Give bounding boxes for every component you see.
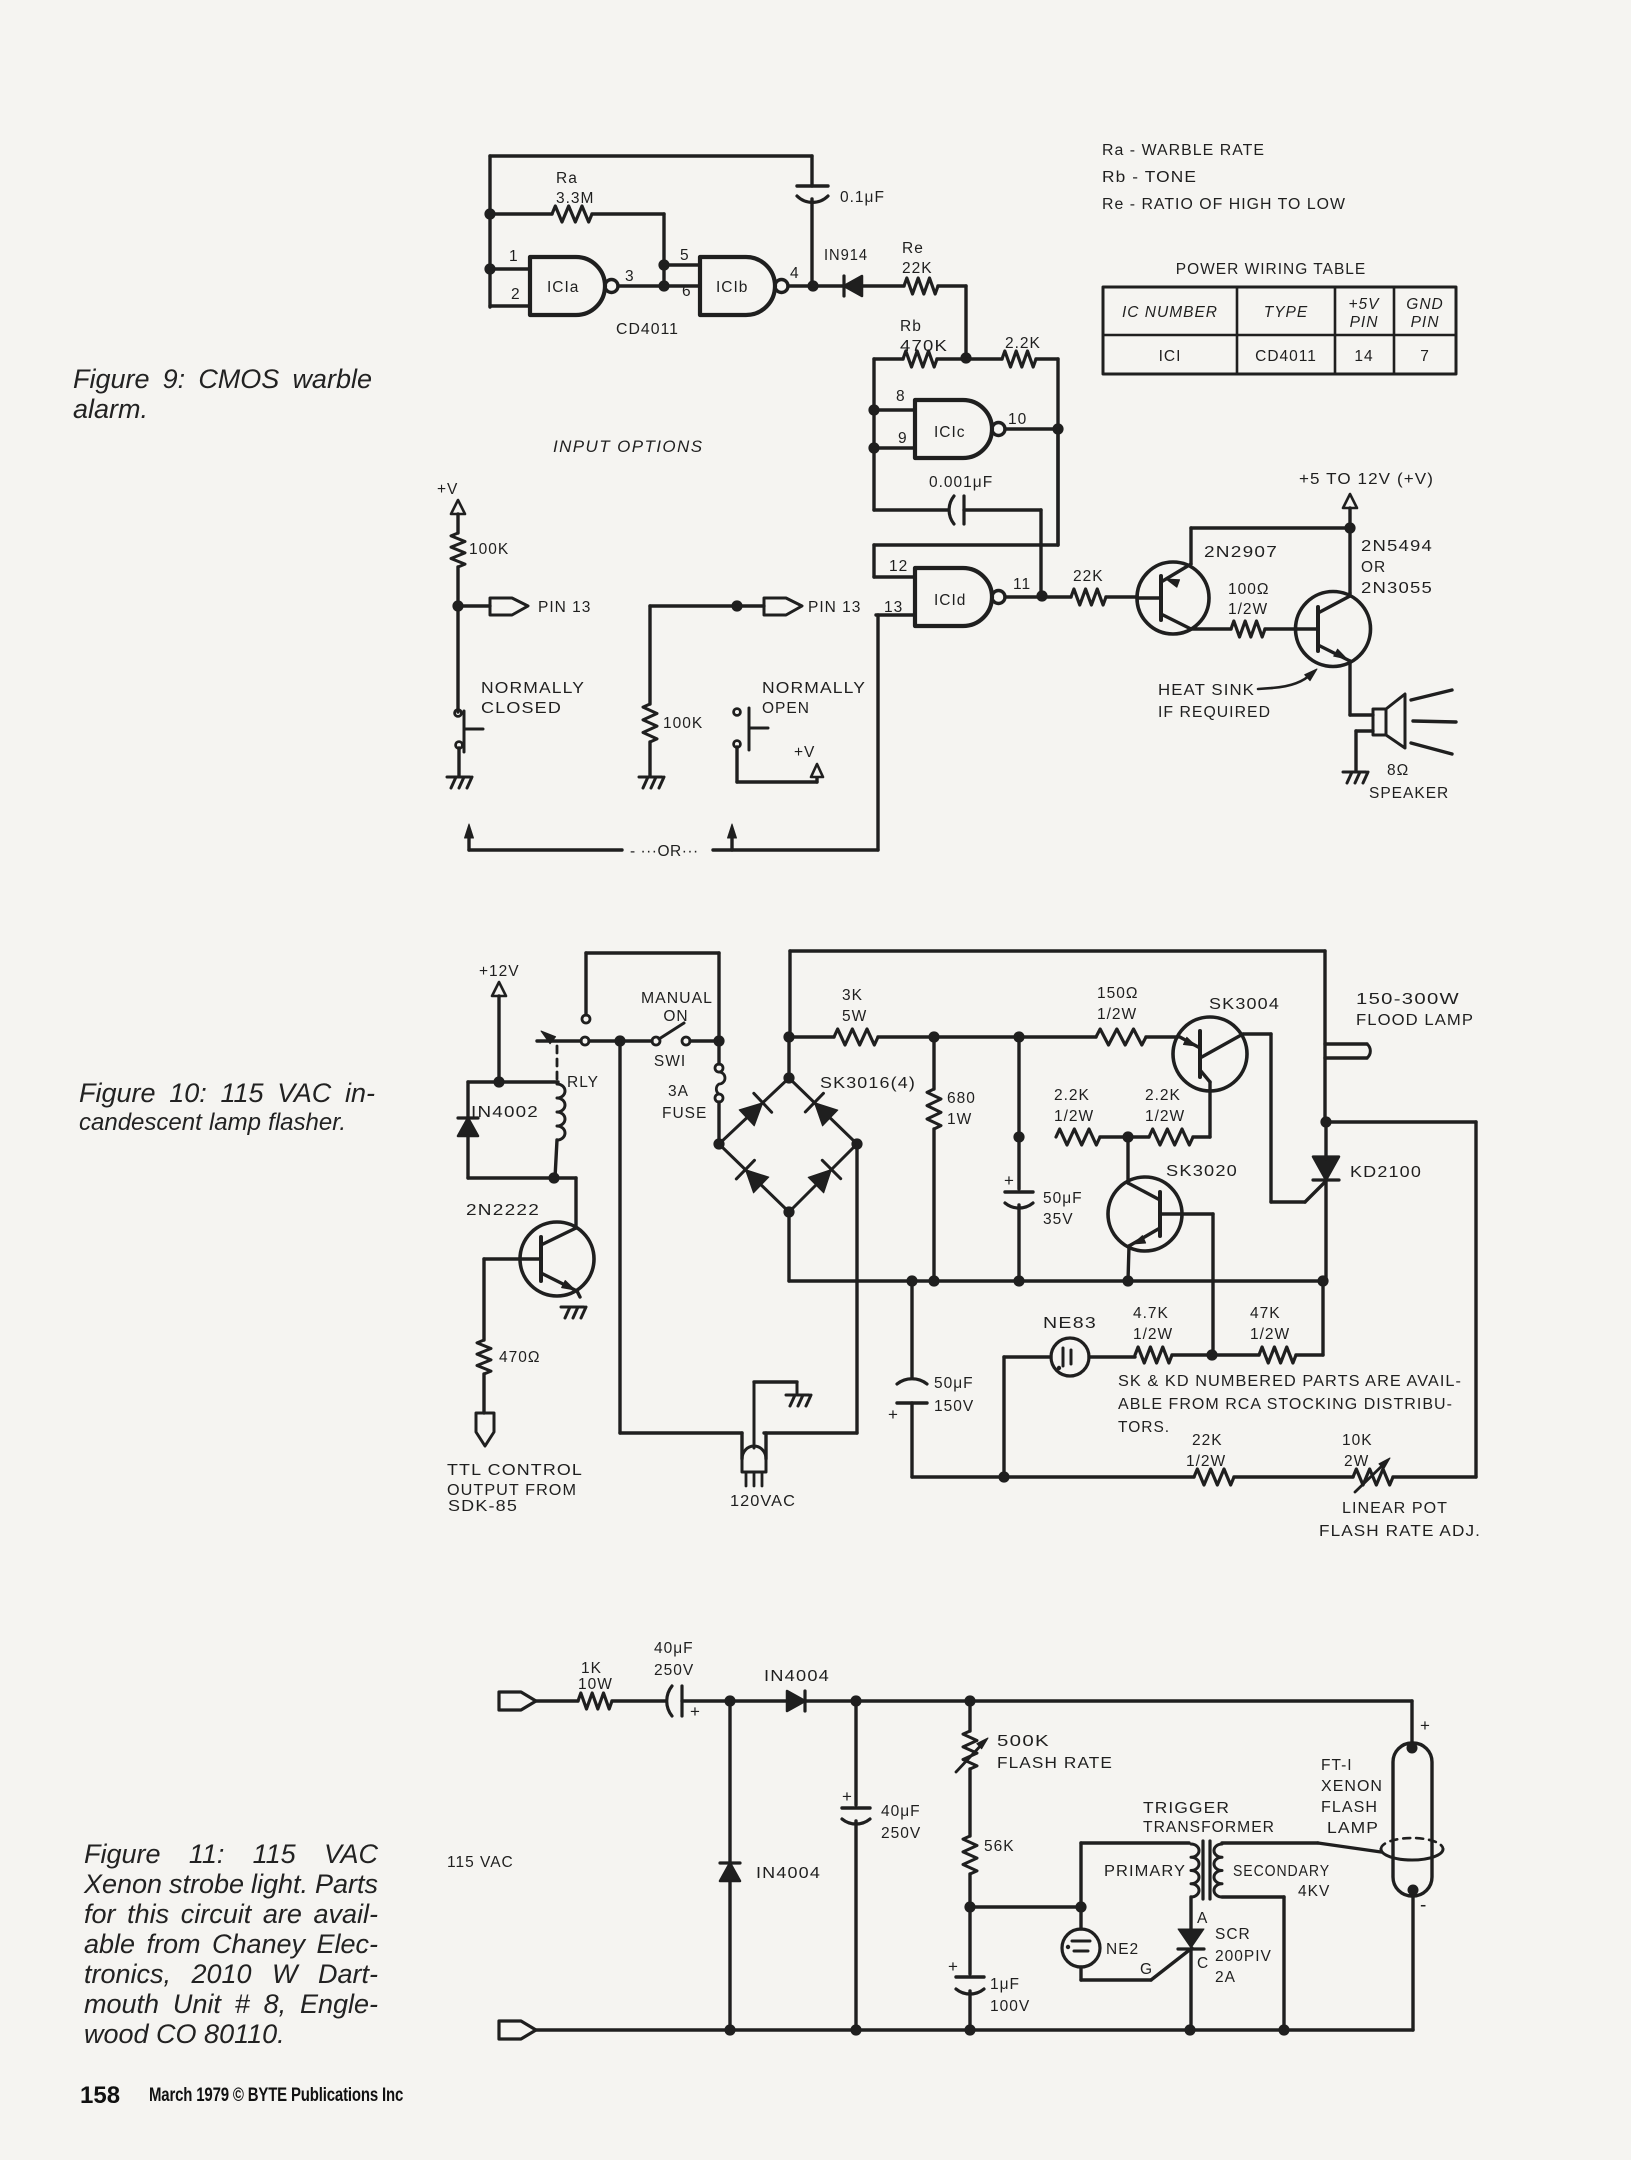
svg-text:1K: 1K (581, 1660, 602, 1677)
svg-text:+: + (842, 1787, 853, 1806)
svg-text:PIN: PIN (1350, 314, 1379, 331)
svg-text:4: 4 (790, 265, 800, 282)
svg-text:ICIb: ICIb (716, 279, 748, 296)
svg-text:1W: 1W (947, 1111, 972, 1128)
svg-text:NE2: NE2 (1106, 1941, 1139, 1958)
svg-text:ABLE FROM RCA STOCKING DISTRIB: ABLE FROM RCA STOCKING DISTRIBU- (1118, 1396, 1453, 1413)
svg-text:IN4004: IN4004 (764, 1668, 830, 1685)
svg-text:FLASH RATE ADJ.: FLASH RATE ADJ. (1319, 1523, 1481, 1540)
svg-text:TRANSFORMER: TRANSFORMER (1143, 1819, 1275, 1836)
svg-text:150Ω: 150Ω (1097, 985, 1138, 1002)
svg-text:14: 14 (1354, 348, 1373, 365)
svg-text:A: A (1197, 1910, 1208, 1927)
svg-text:2A: 2A (1215, 1969, 1236, 1986)
svg-text:5W: 5W (842, 1008, 867, 1025)
svg-text:2N2907: 2N2907 (1204, 544, 1278, 561)
svg-text:100K: 100K (469, 541, 509, 558)
svg-text:NE83: NE83 (1043, 1315, 1097, 1332)
svg-text:0.1μF: 0.1μF (840, 189, 885, 206)
svg-text:PRIMARY: PRIMARY (1104, 1863, 1186, 1880)
svg-text:LINEAR POT: LINEAR POT (1342, 1500, 1448, 1517)
svg-text:35V: 35V (1043, 1211, 1074, 1228)
svg-text:FLOOD LAMP: FLOOD LAMP (1356, 1012, 1474, 1029)
svg-text:PIN 13: PIN 13 (538, 599, 591, 616)
svg-text:Rb - TONE: Rb - TONE (1102, 169, 1197, 186)
svg-text:100K: 100K (663, 715, 703, 732)
svg-text:TRIGGER: TRIGGER (1143, 1800, 1230, 1817)
svg-text:+5V: +5V (1348, 296, 1380, 313)
svg-text:POWER WIRING TABLE: POWER WIRING TABLE (1176, 261, 1367, 278)
svg-text:50μF: 50μF (934, 1375, 974, 1392)
svg-text:+: + (1004, 1171, 1015, 1190)
svg-text:RLY: RLY (567, 1074, 599, 1091)
svg-text:+: + (690, 1702, 701, 1721)
svg-text:HEAT SINK: HEAT SINK (1158, 682, 1255, 699)
svg-text:CD4011: CD4011 (616, 321, 679, 338)
svg-text:2.2K: 2.2K (1005, 335, 1041, 352)
svg-text:ICI: ICI (1159, 348, 1182, 365)
svg-text:FUSE: FUSE (662, 1105, 707, 1122)
svg-text:115 VAC: 115 VAC (447, 1854, 514, 1871)
svg-text:OR: OR (1361, 559, 1386, 576)
svg-text:ON: ON (663, 1008, 688, 1025)
svg-text:1/2W: 1/2W (1133, 1326, 1173, 1343)
svg-text:C: C (1197, 1955, 1209, 1972)
svg-text:4.7K: 4.7K (1133, 1305, 1169, 1322)
svg-text:1/2W: 1/2W (1054, 1108, 1094, 1125)
svg-text:- ···OR···: - ···OR··· (630, 843, 699, 860)
svg-text:2.2K: 2.2K (1054, 1087, 1090, 1104)
svg-text:FLASH: FLASH (1321, 1799, 1378, 1816)
svg-text:Re - RATIO OF HIGH TO LOW: Re - RATIO OF HIGH TO LOW (1102, 196, 1346, 213)
svg-text:KD2100: KD2100 (1350, 1164, 1422, 1181)
svg-text:INPUT OPTIONS: INPUT OPTIONS (553, 437, 703, 456)
svg-text:47K: 47K (1250, 1305, 1281, 1322)
svg-text:+V: +V (437, 481, 458, 498)
svg-text:0.001μF: 0.001μF (929, 474, 993, 491)
svg-text:MANUAL: MANUAL (641, 990, 713, 1007)
svg-text:SPEAKER: SPEAKER (1369, 785, 1449, 802)
svg-text:ICIa: ICIa (547, 279, 579, 296)
svg-text:LAMP: LAMP (1327, 1820, 1379, 1837)
svg-text:120VAC: 120VAC (730, 1493, 796, 1510)
svg-text:NORMALLY: NORMALLY (481, 680, 585, 697)
svg-text:SK3004: SK3004 (1209, 996, 1280, 1013)
svg-text:10: 10 (1008, 411, 1027, 428)
svg-text:SK3020: SK3020 (1166, 1163, 1238, 1180)
svg-text:680: 680 (947, 1090, 976, 1107)
svg-text:200PIV: 200PIV (1215, 1948, 1272, 1965)
svg-text:+: + (1420, 1716, 1431, 1735)
svg-text:12: 12 (889, 558, 908, 575)
svg-text:IN4004: IN4004 (756, 1865, 821, 1882)
svg-text:SWI: SWI (654, 1053, 686, 1070)
svg-text:OUTPUT FROM: OUTPUT FROM (447, 1482, 577, 1499)
svg-text:470Ω: 470Ω (499, 1349, 540, 1366)
svg-text:+: + (888, 1405, 899, 1424)
svg-text:10W: 10W (578, 1676, 613, 1693)
svg-text:Ra - WARBLE RATE: Ra - WARBLE RATE (1102, 142, 1265, 159)
svg-text:IN914: IN914 (824, 247, 868, 264)
svg-text:-: - (1420, 1895, 1427, 1916)
svg-text:470K: 470K (900, 338, 948, 355)
svg-text:2N3055: 2N3055 (1361, 580, 1433, 597)
svg-text:2W: 2W (1344, 1453, 1369, 1470)
svg-text:TORS.: TORS. (1118, 1419, 1170, 1436)
svg-text:+12V: +12V (479, 963, 520, 980)
svg-text:10K: 10K (1342, 1432, 1373, 1449)
svg-text:1/2W: 1/2W (1228, 601, 1268, 618)
svg-text:Rb: Rb (900, 318, 922, 335)
svg-text:6: 6 (682, 283, 692, 300)
svg-text:OPEN: OPEN (762, 700, 810, 717)
svg-text:9: 9 (898, 430, 908, 447)
svg-text:IN4002: IN4002 (471, 1104, 539, 1121)
svg-text:3K: 3K (842, 987, 863, 1004)
svg-text:8: 8 (896, 388, 906, 405)
svg-text:3: 3 (625, 268, 635, 285)
svg-text:TTL CONTROL: TTL CONTROL (447, 1462, 583, 1479)
svg-text:FLASH RATE: FLASH RATE (997, 1755, 1113, 1772)
svg-text:7: 7 (1420, 348, 1430, 365)
svg-text:2.2K: 2.2K (1145, 1087, 1181, 1104)
svg-text:CD4011: CD4011 (1255, 348, 1317, 365)
svg-text:1/2W: 1/2W (1145, 1108, 1185, 1125)
svg-text:50μF: 50μF (1043, 1190, 1083, 1207)
svg-text:NORMALLY: NORMALLY (762, 680, 866, 697)
svg-text:2N2222: 2N2222 (466, 1202, 540, 1219)
svg-text:150-300W: 150-300W (1356, 991, 1460, 1008)
svg-text:G: G (1140, 1961, 1153, 1978)
svg-text:IF REQUIRED: IF REQUIRED (1158, 704, 1271, 721)
svg-text:1μF: 1μF (990, 1976, 1020, 1993)
svg-text:3A: 3A (668, 1083, 689, 1100)
svg-text:PIN 13: PIN 13 (808, 599, 861, 616)
svg-text:22K: 22K (1192, 1432, 1223, 1449)
svg-text:5: 5 (680, 247, 690, 264)
svg-text:1/2W: 1/2W (1097, 1006, 1137, 1023)
svg-text:56K: 56K (984, 1838, 1015, 1855)
svg-text:IC NUMBER: IC NUMBER (1122, 304, 1218, 321)
svg-text:1/2W: 1/2W (1250, 1326, 1290, 1343)
svg-text:1/2W: 1/2W (1186, 1453, 1226, 1470)
svg-text:100Ω: 100Ω (1228, 581, 1269, 598)
svg-text:40μF: 40μF (881, 1803, 921, 1820)
svg-text:SK3016(4): SK3016(4) (820, 1075, 916, 1092)
svg-text:+5 TO 12V (+V): +5 TO 12V (+V) (1299, 471, 1434, 488)
svg-text:250V: 250V (654, 1662, 694, 1679)
svg-text:TYPE: TYPE (1264, 304, 1308, 321)
svg-text:11: 11 (1013, 576, 1031, 593)
svg-text:13: 13 (884, 599, 903, 616)
svg-text:22K: 22K (902, 260, 933, 277)
svg-text:SECONDARY: SECONDARY (1233, 1863, 1330, 1880)
svg-text:SCR: SCR (1215, 1926, 1251, 1943)
svg-text:500K: 500K (997, 1733, 1050, 1750)
svg-text:22K: 22K (1073, 568, 1104, 585)
svg-text:250V: 250V (881, 1825, 921, 1842)
svg-text:Ra: Ra (556, 170, 578, 187)
svg-text:3.3M: 3.3M (556, 190, 594, 207)
svg-text:+V: +V (794, 744, 815, 761)
svg-text:4KV: 4KV (1298, 1883, 1330, 1900)
svg-text:2: 2 (511, 286, 521, 303)
svg-text:PIN: PIN (1411, 314, 1440, 331)
svg-text:100V: 100V (990, 1998, 1030, 2015)
svg-text:GND: GND (1406, 296, 1443, 313)
svg-text:1: 1 (509, 248, 519, 265)
svg-text:150V: 150V (934, 1398, 974, 1415)
svg-text:FT-I: FT-I (1321, 1757, 1353, 1774)
svg-text:SK & KD NUMBERED PARTS ARE AVA: SK & KD NUMBERED PARTS ARE AVAIL- (1118, 1373, 1462, 1390)
svg-text:XENON: XENON (1321, 1778, 1383, 1795)
svg-text:8Ω: 8Ω (1387, 762, 1409, 779)
svg-text:Re: Re (902, 240, 924, 257)
svg-text:CLOSED: CLOSED (481, 700, 562, 717)
svg-text:40μF: 40μF (654, 1640, 694, 1657)
svg-text:2N5494: 2N5494 (1361, 538, 1433, 555)
svg-text:SDK-85: SDK-85 (448, 1498, 518, 1515)
svg-text:ICId: ICId (934, 592, 966, 609)
svg-text:+: + (948, 1957, 959, 1976)
svg-text:ICIc: ICIc (934, 424, 966, 441)
